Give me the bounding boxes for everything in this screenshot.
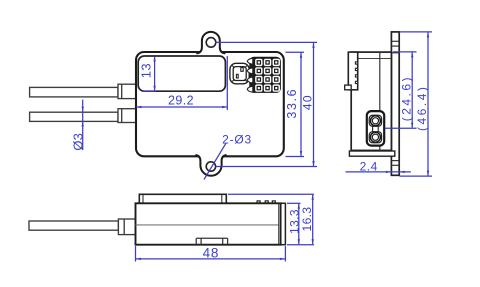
svg-text:16.3: 16.3 [300,207,314,232]
svg-text:40: 40 [300,94,314,110]
svg-text:33.6: 33.6 [285,88,299,119]
svg-text:(46.4): (46.4) [415,85,429,131]
svg-text:48: 48 [203,246,220,261]
svg-text:2.4: 2.4 [360,160,378,174]
svg-text:13: 13 [139,63,154,78]
svg-text:2-Ø3: 2-Ø3 [222,132,252,146]
svg-text:Ø3: Ø3 [70,133,85,151]
svg-text:29.2: 29.2 [168,93,194,107]
svg-text:(24.6): (24.6) [399,75,413,121]
